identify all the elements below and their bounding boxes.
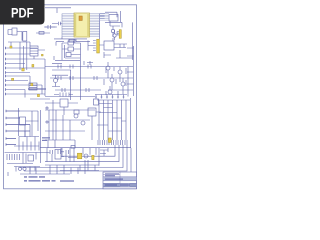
- box mid-left: [20, 117, 26, 125]
- resistor mid small: [74, 110, 79, 114]
- box mid right: [88, 108, 96, 116]
- connector pins left A: [6, 48, 45, 73]
- wire bottom distribution: [30, 160, 85, 174]
- connector pins left D: [6, 137, 16, 145]
- yellow part D7: [77, 153, 81, 159]
- yellow part D2: [12, 78, 14, 80]
- yellow part D8: [92, 155, 94, 159]
- note text line 1: [24, 176, 74, 181]
- ladder component row: [97, 140, 131, 148]
- yellow part D9: [108, 138, 111, 142]
- capacitor group bottom-left2: [8, 167, 40, 177]
- transistor Q12: [54, 79, 58, 83]
- wire long horizontals center: [45, 67, 133, 97]
- IC U3 small: [30, 46, 38, 56]
- title row fill 2: [103, 183, 120, 187]
- wire IC right bus: [100, 14, 105, 40]
- wire right top: [105, 11, 122, 27]
- regulator box Q10: [55, 150, 61, 160]
- transistor Q7: [108, 90, 112, 94]
- IC U4 mid: [60, 99, 68, 107]
- transistor Q2: [113, 34, 116, 37]
- node box U2: [109, 15, 118, 22]
- wire right mid: [113, 22, 133, 60]
- transistor Q6: [121, 82, 125, 86]
- connector pins left B: [6, 76, 45, 94]
- page frame: [4, 5, 137, 189]
- net labels bottom: [42, 137, 50, 141]
- yellow part D11: [41, 54, 43, 56]
- capacitor row mid-left: [14, 137, 39, 151]
- regulator box bottom-left: [28, 155, 34, 161]
- transistor Q1: [111, 29, 114, 32]
- pin band right of IC U1: [90, 14, 110, 37]
- connector CN2 yellow: [97, 39, 100, 53]
- IC U1: [74, 13, 90, 37]
- node box ladder top: [94, 99, 99, 105]
- footer text: [60, 180, 74, 181]
- yellow part D4: [32, 64, 34, 67]
- IC U5 small: [29, 83, 37, 90]
- yellow part D1: [10, 46, 12, 48]
- box right of connector: [104, 41, 114, 50]
- wire right edge stubs: [116, 46, 134, 96]
- connector J1 group left top: [8, 30, 12, 35]
- yellow connector pins: [88, 41, 96, 51]
- title row lines: [103, 172, 137, 187]
- component tick row above ladder: [95, 95, 127, 99]
- resistor top-left: [39, 32, 44, 35]
- wire ladder verticals: [97, 98, 131, 148]
- transistor Q14: [23, 167, 26, 170]
- title row fill 1: [103, 177, 136, 181]
- wire nested bends bottom-right: [20, 145, 131, 174]
- title text marks: [105, 174, 130, 186]
- relay K1: [23, 32, 27, 42]
- svg-text:PDF: PDF: [11, 5, 34, 21]
- wire center mid: [52, 42, 93, 100]
- note text line 2: [24, 180, 27, 181]
- yellow part D3: [22, 68, 24, 71]
- transistor Q13: [18, 167, 21, 170]
- IC U1 pin dots: [75, 14, 89, 36]
- wire bottom-mid extra: [47, 148, 99, 171]
- wire mid-left verticals: [20, 42, 50, 99]
- IC U1 inner mark: [79, 16, 82, 21]
- yellow part D5: [31, 83, 33, 85]
- cluster center boxes: [68, 41, 74, 45]
- wire top bus: [36, 8, 71, 33]
- pin band left of IC U1: [62, 14, 109, 37]
- transistor Q5: [110, 78, 114, 82]
- wire left of bends: [100, 148, 108, 156]
- capacitor ticks row2: [50, 150, 69, 154]
- small box bottom: [71, 146, 75, 149]
- capacitor ticks row1: [58, 65, 97, 93]
- wire bottom-middle: [40, 140, 99, 166]
- bus mid-left thick: [28, 88, 46, 90]
- capacitor top-left: [44, 25, 56, 29]
- connector pins left C: [6, 110, 30, 132]
- connector CN3 yellow: [119, 30, 121, 39]
- transistor Q4: [118, 70, 122, 74]
- transistor Q3: [106, 66, 110, 70]
- component stubs below rails: [104, 67, 126, 95]
- yellow part D10: [37, 94, 39, 96]
- wire right-mid verticals: [108, 62, 128, 97]
- PDF badge: [0, 0, 45, 25]
- transistor Q11: [84, 154, 88, 158]
- capacitor ticks center low: [54, 93, 73, 97]
- wire top-left feed: [8, 42, 30, 46]
- node stubs mid: [46, 107, 48, 109]
- transistor Q8: [74, 114, 78, 118]
- title block: [103, 172, 137, 189]
- node box under IC: [69, 40, 75, 43]
- wire under IC: [54, 36, 90, 42]
- wire bottom-left cluster: [5, 153, 50, 164]
- wire mid-left long vertical: [19, 108, 41, 163]
- transistor Q9: [81, 121, 85, 125]
